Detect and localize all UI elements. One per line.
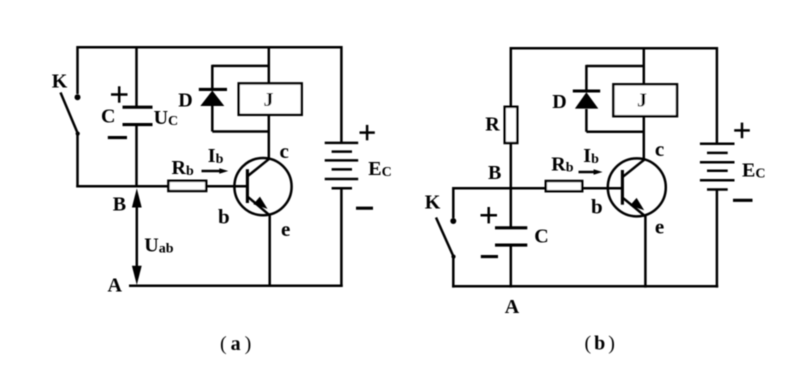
resistor R lower lead to node B and capacitor (b) — [510, 143, 513, 229]
transistor collector line (b) — [623, 159, 646, 177]
battery Ec plates (b) — [700, 144, 735, 190]
resistor R upper lead (b) — [510, 47, 513, 107]
switch K fixed contact dot (a) — [75, 94, 81, 100]
svg-text:D: D — [552, 91, 566, 113]
transistor emitter line (a) — [248, 197, 270, 216]
svg-text:A: A — [108, 274, 123, 296]
voltage arrow Uab (a) — [132, 188, 142, 285]
transistor emitter arrowhead (b) — [630, 198, 644, 210]
battery Ec plates (a) — [325, 143, 359, 188]
label minus of battery (b) — [733, 199, 753, 202]
wire relay J to collector (b) — [643, 116, 646, 160]
battery Ec positive lead (b) — [716, 47, 719, 144]
label + of battery (b) — [734, 123, 750, 139]
transistor emitter line (b) — [623, 198, 646, 217]
wire Rb to base (a) — [206, 185, 248, 188]
diode D cathode lead (b) — [585, 65, 588, 90]
svg-text:b: b — [218, 204, 230, 228]
svg-text:A: A — [505, 296, 520, 318]
wire diode top link (a) — [212, 65, 269, 68]
svg-text:J: J — [637, 90, 647, 112]
switch K blade (a) — [61, 93, 79, 135]
diode D anode lead (a) — [211, 106, 214, 132]
wire bottom rail (a) — [129, 284, 343, 287]
wire relay branch upper (b) — [643, 47, 646, 85]
switch K pivot dot (b) — [451, 255, 455, 259]
switch K blade (b) — [436, 218, 454, 258]
relay coil J box (a) — [239, 83, 302, 114]
label minus of capacitor C (a) — [108, 136, 127, 139]
svg-text:c: c — [655, 137, 664, 161]
svg-text:K: K — [425, 191, 441, 213]
switch K upper lead (b) — [452, 187, 455, 218]
label minus of capacitor C (b) — [481, 255, 498, 258]
wire capacitor C top lead (a) — [135, 46, 138, 106]
capacitor C bottom lead (b) — [510, 246, 513, 288]
svg-text:D: D — [178, 89, 192, 111]
transistor base bar (a) — [246, 169, 249, 203]
wire emitter to bottom rail (a) — [268, 215, 271, 287]
diode D cathode lead (a) — [211, 65, 214, 88]
svg-text:R: R — [485, 114, 500, 136]
battery Ec negative lead (b) — [716, 190, 719, 288]
wire node B row left (a) — [76, 185, 169, 188]
svg-text:C: C — [101, 106, 115, 128]
battery Ec positive lead (a) — [340, 46, 343, 143]
svg-text:b: b — [591, 195, 603, 219]
wire node B row (b) — [453, 187, 546, 190]
label + of battery (a) — [360, 125, 375, 140]
switch K lower lead (b) — [452, 256, 455, 288]
wire Rb to base (b) — [582, 187, 623, 190]
relay coil J box (b) — [613, 84, 677, 116]
resistor Rb (a) — [168, 181, 206, 191]
wire diode bottom link (a) — [212, 130, 269, 133]
label + of capacitor C (a) — [111, 86, 128, 102]
transistor collector line (a) — [248, 158, 270, 176]
svg-text:e: e — [655, 215, 664, 239]
wire switch K upper lead (a) — [76, 46, 79, 94]
diode D cathode bar (a) — [199, 88, 227, 91]
current arrow Ib (a) — [202, 168, 229, 174]
wire switch K to node B (a) — [76, 133, 79, 188]
svg-text:C: C — [534, 226, 548, 248]
wire relay branch upper (a) — [268, 46, 271, 84]
capacitor C plates (b) — [495, 228, 527, 245]
current arrow Ib (b) — [579, 169, 603, 175]
battery Ec negative lead (a) — [340, 188, 343, 287]
transistor circle (a) — [234, 158, 291, 215]
resistor Rb (b) — [546, 181, 582, 191]
svg-text:(a): (a) — [220, 333, 251, 355]
label + of capacitor C (b) — [481, 207, 498, 223]
svg-text:J: J — [264, 89, 274, 111]
transistor base bar (b) — [621, 170, 624, 205]
wire top rail (b) — [511, 47, 717, 50]
resistor R (b) — [505, 107, 518, 143]
transistor emitter arrowhead (a) — [253, 197, 267, 209]
wire emitter to bottom rail (b) — [644, 216, 647, 288]
label minus of battery (a) — [356, 207, 373, 210]
diode D anode lead (b) — [585, 109, 588, 132]
svg-text:K: K — [52, 70, 68, 92]
capacitor C plates (a) — [123, 107, 153, 124]
diode D triangle (b) — [575, 92, 598, 108]
wire top rail (a) — [78, 46, 342, 49]
diode D cathode bar (b) — [573, 89, 600, 92]
svg-text:B: B — [488, 162, 501, 184]
switch K fixed contact dot (b) — [450, 218, 456, 224]
wire diode bottom link (b) — [586, 131, 644, 134]
wire capacitor C bottom lead (a) — [135, 126, 138, 188]
diode D triangle (a) — [200, 91, 224, 107]
switch K pivot dot (a) — [76, 132, 80, 136]
svg-text:B: B — [113, 194, 126, 216]
wire diode top link (b) — [586, 65, 644, 68]
svg-text:(b): (b) — [585, 333, 615, 355]
wire relay J to collector (a) — [268, 115, 271, 160]
svg-text:c: c — [280, 139, 289, 163]
wire bottom rail (b) — [452, 285, 718, 288]
transistor circle (b) — [608, 158, 666, 216]
svg-text:e: e — [281, 217, 290, 241]
